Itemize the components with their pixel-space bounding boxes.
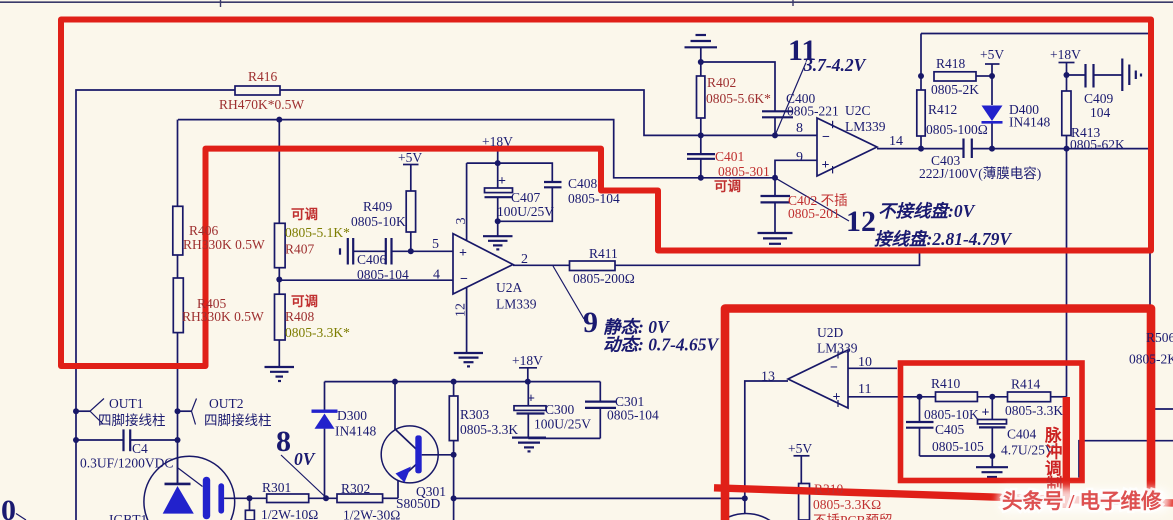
resistor R405 — [173, 278, 183, 333]
svg-text:0805-200Ω: 0805-200Ω — [573, 271, 635, 286]
capacitor C403 — [964, 139, 972, 159]
wire: Q301 collector — [394, 382, 396, 430]
IGBT1 — [144, 456, 235, 520]
svg-text:可调: 可调 — [714, 179, 741, 194]
terminal OUT2 — [178, 399, 197, 425]
callout line 9 — [553, 266, 584, 319]
svg-text:C406: C406 — [357, 252, 387, 267]
wire: U2A pin12 to ground — [466, 281, 468, 353]
svg-text:0805-3.3K: 0805-3.3K — [460, 422, 518, 437]
svg-text:R303: R303 — [460, 407, 490, 422]
svg-text:0805-62K: 0805-62K — [1070, 137, 1125, 152]
svg-text:C408: C408 — [568, 176, 598, 191]
svg-text:R302: R302 — [341, 481, 370, 496]
svg-text:四脚接线柱: 四脚接线柱 — [204, 412, 272, 428]
label C401 — [714, 149, 770, 194]
label R407 group — [285, 207, 350, 257]
wire: U2C output net y148.6 with feedback box — [877, 34, 1173, 410]
svg-text:R402: R402 — [707, 75, 736, 90]
label R412 — [926, 102, 988, 137]
svg-text:OUT1: OUT1 — [109, 396, 144, 411]
svg-text:1/2W-10Ω: 1/2W-10Ω — [261, 507, 318, 520]
label Q301 — [396, 484, 446, 511]
svg-text:0805-5.6K*: 0805-5.6K* — [706, 91, 771, 106]
svg-text:12: 12 — [454, 303, 469, 317]
op-amp U2D (points left) — [788, 350, 848, 408]
wire: U2D pin10 stub — [848, 367, 897, 369]
label R302 — [341, 481, 400, 520]
capacitor C301 — [585, 402, 616, 408]
svg-text:0805-104: 0805-104 — [607, 408, 659, 423]
red highlight bracket around U2D area — [725, 309, 1151, 520]
svg-text:R407: R407 — [285, 242, 315, 257]
label R402 — [706, 75, 771, 106]
capacitor C400 — [762, 111, 793, 117]
svg-text:0805-221: 0805-221 — [787, 104, 839, 119]
label +18V mid — [512, 353, 543, 368]
svg-text:3.7-4.2V: 3.7-4.2V — [803, 55, 867, 75]
svg-text:R411: R411 — [589, 246, 618, 261]
wire: C301 column and ground link — [528, 382, 600, 439]
svg-text:C405: C405 — [935, 422, 965, 437]
resistor R402 — [697, 76, 705, 118]
svg-text:R414: R414 — [1011, 377, 1041, 392]
svg-text:5: 5 — [432, 237, 439, 252]
label R310 — [813, 482, 893, 520]
label +18V upper — [482, 134, 513, 149]
svg-text:IN4148: IN4148 — [335, 424, 376, 439]
svg-text:−: − — [830, 361, 838, 376]
wire: U2A pin3 and +18V box to C407/C408 — [467, 148, 553, 240]
label R405 — [182, 296, 264, 324]
op-amp U2A — [453, 234, 513, 294]
label C300 — [534, 402, 591, 432]
svg-text:+: + — [498, 174, 506, 189]
svg-text:13: 13 — [761, 370, 775, 385]
svg-text:0805-301: 0805-301 — [718, 164, 770, 179]
label R409 — [351, 199, 406, 229]
wire: R409 +5V stems — [403, 165, 419, 252]
resistor R406 — [173, 206, 183, 255]
wire: U2A output pin2 to R411 and up to U2C net — [513, 253, 920, 265]
svg-text:1/2W-30Ω: 1/2W-30Ω — [343, 508, 400, 520]
diode D400 — [982, 106, 1003, 123]
capacitor C405 — [906, 422, 934, 428]
label C400 — [786, 91, 839, 119]
label C409 — [1084, 91, 1114, 120]
capacitor C300 electrolytic — [514, 392, 546, 414]
ground right of C409 sideways — [1122, 59, 1141, 92]
pin labels U2C — [796, 121, 903, 165]
big number 8 with value — [276, 425, 316, 469]
wire: +18V stem and C300 column — [519, 368, 537, 438]
label C404 — [1001, 427, 1055, 458]
svg-text:R412: R412 — [928, 102, 957, 117]
label C405 — [932, 422, 984, 454]
svg-text:+18V: +18V — [512, 353, 543, 368]
label R408 group — [285, 294, 350, 340]
svg-text:+: + — [459, 246, 467, 261]
wire: C4 row — [76, 439, 178, 441]
label C406 — [357, 252, 409, 282]
wire: C406 to U2A pin5 — [354, 250, 453, 252]
capacitor C407 electrolytic — [485, 174, 513, 197]
label D300 — [335, 408, 376, 439]
svg-text:+5V: +5V — [980, 47, 1004, 62]
wire: D300 stems — [324, 382, 326, 499]
terminal OUT1 — [76, 399, 104, 425]
label R413 — [1070, 125, 1125, 152]
sheet border top line — [0, 0, 1173, 7]
svg-text:R418: R418 — [936, 56, 966, 71]
svg-text:10: 10 — [858, 355, 872, 370]
svg-text:222J/100V(薄膜电容): 222J/100V(薄膜电容) — [919, 165, 1041, 181]
svg-text:C409: C409 — [1084, 91, 1114, 106]
capacitor C402 — [761, 196, 791, 202]
resistor R301 — [267, 494, 309, 503]
svg-text:C407: C407 — [511, 190, 541, 205]
svg-text:R408: R408 — [285, 309, 315, 324]
svg-text:+: + — [822, 158, 830, 173]
big number 0 — [1, 494, 16, 520]
resistor R418 — [934, 72, 976, 81]
IGBT2 bottom circle — [702, 514, 791, 520]
svg-text:4: 4 — [433, 268, 440, 283]
svg-text:9: 9 — [583, 306, 598, 339]
wire: R303 stems and base column x453.6 — [422, 382, 454, 520]
label R406 — [183, 223, 265, 252]
svg-text:0805-2KΩ: 0805-2KΩ — [1129, 352, 1173, 367]
svg-text:RH330K 0.5W: RH330K 0.5W — [182, 309, 264, 324]
svg-text:不接线盘:0V: 不接线盘:0V — [878, 201, 976, 221]
svg-text:100U/25V: 100U/25V — [534, 417, 591, 432]
label U2D — [817, 325, 858, 356]
transistor Q301 — [381, 426, 438, 483]
svg-text:−: − — [822, 130, 830, 145]
label R506 edge — [1129, 330, 1173, 367]
svg-text:0805-3.3KΩ: 0805-3.3KΩ — [813, 497, 881, 512]
ground under U2A pin12 — [454, 353, 483, 366]
svg-text:2: 2 — [521, 252, 528, 267]
svg-text:IN4148: IN4148 — [1009, 115, 1050, 130]
wire: rail B x177.5 segments — [177, 120, 179, 484]
callout line 8 — [281, 455, 326, 498]
svg-text:+: + — [833, 390, 841, 405]
svg-text:0: 0 — [1, 494, 16, 520]
svg-text:+5V: +5V — [398, 150, 422, 165]
svg-text:0805-5.1K*: 0805-5.1K* — [285, 225, 350, 240]
svg-text:动态: 0.7-4.65V: 动态: 0.7-4.65V — [603, 335, 720, 355]
svg-text:LM339: LM339 — [496, 297, 537, 312]
svg-text:0805-3.3K: 0805-3.3K — [1005, 403, 1063, 418]
capacitor C406 doubled plates with stub — [340, 238, 392, 265]
svg-text:0805-2K: 0805-2K — [931, 82, 979, 97]
capacitor C409 — [1086, 64, 1094, 88]
label U2C — [845, 103, 886, 134]
svg-text:0805-3.3K*: 0805-3.3K* — [285, 325, 350, 340]
capacitor C4 — [124, 429, 131, 451]
svg-text:0805-10K: 0805-10K — [924, 407, 979, 422]
svg-text:8: 8 — [796, 121, 803, 136]
svg-text:0805-201: 0805-201 — [788, 206, 840, 221]
svg-text:OUT2: OUT2 — [209, 396, 244, 411]
watermark halo — [998, 488, 1170, 513]
red diagonal underline — [714, 488, 1173, 503]
svg-text:8: 8 — [276, 425, 291, 458]
svg-text:IGBT1: IGBT1 — [109, 512, 147, 520]
wire: U2D output net to Q301 base node — [454, 381, 788, 514]
svg-text:头条号 / 电子维修: 头条号 / 电子维修 — [1002, 489, 1162, 513]
svg-text:0.3UF/1200VDC: 0.3UF/1200VDC — [80, 456, 173, 471]
wire: +18V mid rail y381.6 — [325, 381, 601, 383]
ground top inverted above R402 — [685, 35, 718, 47]
svg-text:+: + — [982, 406, 990, 421]
svg-text:U2D: U2D — [817, 325, 843, 340]
svg-text:0V: 0V — [294, 449, 316, 469]
label R416 — [219, 69, 304, 112]
callout line 11 — [775, 63, 806, 136]
label C408 — [568, 176, 620, 206]
wire: C405 branch — [920, 397, 993, 456]
wire: R416 top net from resistor right to U2C pin8 — [280, 90, 817, 135]
capacitor C401 — [687, 154, 715, 159]
svg-text:S8050D: S8050D — [396, 496, 441, 511]
wire: R416 bottom net y119.6 to U2C pin9 — [178, 120, 817, 178]
svg-text:12: 12 — [846, 205, 876, 238]
svg-text:可调: 可调 — [291, 207, 318, 222]
label pulse modulation vertical — [1044, 425, 1063, 494]
svg-text:C300: C300 — [545, 402, 575, 417]
capacitor C408 — [544, 182, 562, 187]
ground under C300 — [512, 438, 546, 452]
svg-text:C4: C4 — [132, 441, 148, 456]
label C301 — [607, 394, 659, 423]
svg-text:0805-104: 0805-104 — [357, 267, 409, 282]
resistor R303 — [449, 396, 458, 441]
resistor R413 — [1062, 91, 1071, 136]
callout line 12 — [775, 178, 849, 221]
red inner box pulse-modulation — [901, 363, 1083, 481]
svg-text:R406: R406 — [189, 223, 219, 238]
svg-text:D300: D300 — [337, 408, 367, 423]
resistor R414 — [1008, 392, 1051, 402]
svg-text:+: + — [527, 392, 535, 407]
label R414 — [1005, 377, 1063, 419]
svg-text:−: − — [460, 272, 468, 287]
svg-text:9: 9 — [796, 150, 803, 165]
resistor R411 — [570, 261, 616, 271]
label C403 — [919, 153, 1041, 181]
svg-text:3: 3 — [454, 218, 469, 225]
capacitor C404 electrolytic — [978, 406, 1007, 428]
svg-text:U2A: U2A — [496, 280, 522, 295]
resistor R412 — [917, 90, 925, 136]
resistor R410 — [936, 392, 978, 402]
label R411 — [573, 246, 635, 286]
red highlight polygon top (staircase outline) — [61, 20, 1151, 367]
label +5V right — [980, 47, 1004, 62]
resistor R408 — [275, 294, 286, 340]
svg-text:0805-105: 0805-105 — [932, 439, 984, 454]
label U2A — [496, 280, 537, 312]
ground under C402 — [758, 233, 793, 249]
svg-text:R416: R416 — [248, 69, 278, 84]
svg-text:不插PCB预留: 不插PCB预留 — [813, 513, 893, 520]
svg-text:R301: R301 — [262, 480, 291, 495]
pin labels U2A — [432, 218, 528, 318]
resistor R409 — [406, 191, 415, 232]
svg-text:LM339: LM339 — [845, 119, 886, 134]
svg-text:四脚接线柱: 四脚接线柱 — [98, 412, 166, 428]
svg-text:R310: R310 — [814, 482, 844, 497]
label C407 — [497, 190, 554, 219]
label OUT1 — [98, 396, 166, 428]
op-amp U2C — [817, 118, 877, 176]
big number 9 with values — [583, 306, 720, 355]
label +18V right — [1050, 47, 1081, 62]
wire: U2D pin11 to R410/R414 row — [848, 396, 1067, 398]
resistor R407 — [275, 223, 286, 267]
pin labels U2D — [761, 355, 872, 397]
svg-text:14: 14 — [889, 134, 903, 149]
svg-text:RH470K*0.5W: RH470K*0.5W — [219, 97, 304, 112]
svg-text:+5V: +5V — [788, 441, 812, 456]
label R410 — [924, 376, 979, 422]
svg-text:R409: R409 — [363, 199, 393, 214]
svg-text:可调: 可调 — [291, 294, 318, 309]
wire: U2A pin4 — [279, 279, 454, 281]
resistor R300 bottom stub — [245, 510, 254, 520]
resistor R302 — [337, 494, 383, 503]
label C402 — [788, 193, 848, 221]
wire: U2C out node down to R414 right node — [1066, 149, 1068, 397]
svg-text:R410: R410 — [931, 376, 961, 391]
label D400 — [1009, 102, 1050, 130]
ground under C407 — [483, 236, 513, 249]
ground under R408 — [265, 367, 295, 381]
svg-text:RH330K 0.5W: RH330K 0.5W — [183, 237, 265, 252]
svg-text:C404: C404 — [1007, 427, 1037, 442]
label IGBT1 — [109, 512, 147, 520]
label C4 — [80, 441, 173, 471]
big number 12 with values — [846, 201, 1012, 249]
wire: C404 branch — [991, 397, 993, 467]
svg-text:100U/25V: 100U/25V — [497, 204, 554, 219]
resistor R310 — [799, 484, 810, 520]
wire: left rail A vertical x76 — [76, 90, 235, 520]
svg-text:LM339: LM339 — [817, 341, 858, 356]
ground under C404 — [976, 467, 1008, 481]
label R418 — [931, 56, 979, 97]
wire: top ground / R402 / C400 / C401 column — [701, 48, 775, 233]
svg-text:104: 104 — [1090, 105, 1111, 120]
callout line 0 — [16, 514, 26, 520]
wire: gate drive row y498.3 — [224, 481, 398, 511]
big number 11 with value — [788, 34, 867, 75]
diode D300 — [312, 411, 338, 429]
label +5V bottom — [788, 441, 812, 456]
svg-text:+18V: +18V — [482, 134, 513, 149]
svg-text:0805-10K: 0805-10K — [351, 214, 406, 229]
label R303 — [460, 407, 518, 437]
wire: far right vertical to edge — [1079, 441, 1173, 478]
svg-text:接线盘:2.81-4.79V: 接线盘:2.81-4.79V — [874, 229, 1012, 249]
svg-text:11: 11 — [858, 382, 871, 397]
svg-text:+18V: +18V — [1050, 47, 1081, 62]
svg-text:R506: R506 — [1146, 330, 1173, 345]
svg-text:U2C: U2C — [845, 103, 871, 118]
label OUT2 — [204, 396, 272, 428]
svg-text:C401: C401 — [715, 149, 744, 164]
svg-text:0805-100Ω: 0805-100Ω — [926, 122, 988, 137]
wire: +5V bottom stem — [794, 456, 810, 484]
wire: R407/R408 branch x279 — [278, 120, 280, 367]
svg-text:0805-104: 0805-104 — [568, 191, 620, 206]
label +5V top-mid — [398, 150, 422, 165]
resistor R416 — [235, 86, 280, 95]
watermark text — [1002, 489, 1162, 513]
red trace overlay line at R414 right — [1063, 397, 1070, 508]
label R301 — [261, 480, 318, 520]
